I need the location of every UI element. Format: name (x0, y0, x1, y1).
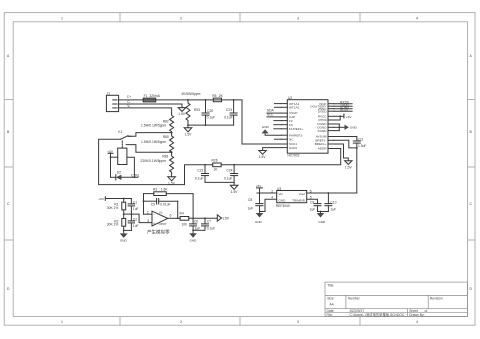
capacitor C10 (325, 193, 337, 212)
svg-text:1uF: 1uF (310, 207, 316, 211)
op-amp U1 OP07 (147, 211, 172, 226)
svg-text:+5V: +5V (346, 115, 353, 119)
junction coil right (134, 176, 136, 178)
wire C22 C24 bottoms (205, 181, 234, 183)
resistor R5 (212, 94, 223, 102)
svg-text:6: 6 (170, 214, 172, 218)
wire U2 AVSUM to C11 (334, 136, 357, 138)
svg-text:6: 6 (310, 189, 312, 193)
svg-text:0.1uF: 0.1uF (224, 116, 232, 120)
wire RTD0 tie to +5V (334, 116, 340, 120)
svg-text:J1: J1 (107, 92, 111, 96)
resistor R83 (141, 152, 174, 177)
svg-text:4: 4 (416, 16, 418, 20)
connector J1 (106, 92, 118, 112)
junction C23 top (233, 99, 235, 101)
resistor R80 (141, 133, 174, 153)
svg-text:1uF: 1uF (133, 207, 139, 211)
wire coil right down (127, 157, 134, 177)
junction tap2 (171, 151, 173, 153)
wire U2 DGND group to GND (334, 124, 339, 131)
svg-text:C+: C+ (127, 95, 131, 99)
power port +5V at relay (107, 149, 114, 157)
wire U2 DOUT (334, 105, 352, 107)
svg-text:+5V: +5V (107, 149, 114, 153)
wire U2 BREF1- to C11 bottom (334, 140, 357, 148)
junction C7 top (204, 217, 206, 219)
svg-text:C23: C23 (226, 108, 232, 112)
svg-text:3: 3 (297, 320, 299, 324)
junction C5 left (143, 200, 145, 202)
capacitor C5 (144, 199, 178, 207)
svg-text:4: 4 (416, 320, 418, 324)
svg-text:4: 4 (271, 196, 273, 200)
junction C22 top (204, 164, 206, 166)
svg-text:GND: GND (262, 125, 270, 129)
junction R1 top (123, 198, 125, 200)
junction C20 top (205, 99, 207, 101)
svg-text:Title: Title (327, 284, 333, 288)
svg-text:100: 100 (181, 222, 187, 226)
svg-text:1.5K: 1.5K (161, 188, 169, 192)
svg-text:ADDR: ADDR (318, 147, 328, 151)
power port GND right of U2 (right arrow) (339, 125, 357, 130)
wire +5V down to diode anode (110, 157, 112, 177)
svg-text:C9: C9 (310, 200, 314, 204)
svg-text:1.5V: 1.5V (178, 112, 186, 116)
svg-text:OP07: OP07 (159, 222, 167, 226)
junction Vout C10 (328, 192, 330, 194)
svg-text:1.5V: 1.5V (222, 216, 230, 220)
svg-text:1uF: 1uF (330, 207, 336, 211)
svg-text:0.1uF: 0.1uF (207, 116, 215, 120)
svg-text:Size: Size (327, 297, 334, 301)
svg-text:C6: C6 (194, 220, 198, 224)
svg-text:CTRL: CTRL (131, 174, 140, 178)
wire +5V to coil left (111, 156, 118, 158)
wire U2 SCK0 to 1.5V port (263, 148, 282, 151)
junction Vin C8 (259, 192, 261, 194)
svg-text:30K 1%: 30K 1% (107, 223, 119, 227)
svg-text:F1/REF2+: F1/REF2+ (289, 127, 303, 131)
svg-text:1uF: 1uF (133, 224, 139, 228)
svg-text:REF3040: REF3040 (276, 204, 290, 208)
svg-text:1.5uF: 1.5uF (358, 144, 366, 148)
junction C9 C10 (320, 211, 322, 213)
svg-text:C:\Users\..\测试电压采集板.SCHDOC: C:\Users\..\测试电压采集板.SCHDOC (350, 312, 405, 317)
resistor R3 (144, 188, 194, 196)
capacitor C22 (195, 165, 209, 183)
wire U2 ZSNC (334, 108, 352, 110)
wire U2 WT1A1 (274, 103, 281, 105)
power port 1.5V below C24 (230, 182, 238, 194)
svg-text:C24: C24 (226, 168, 232, 172)
svg-text:220K/0.1W/5ppm: 220K/0.1W/5ppm (141, 159, 167, 163)
svg-text:GND: GND (318, 220, 326, 224)
power port 1.5V below R93 (184, 125, 192, 136)
svg-text:3: 3 (297, 16, 299, 20)
wire U2 VSUP (267, 112, 281, 114)
svg-text:320mA: 320mA (149, 94, 160, 98)
resistor R2 (107, 214, 126, 230)
power port 1.5V below chain (168, 177, 176, 186)
capacitor C2 (128, 214, 138, 230)
svg-text:1.5V: 1.5V (345, 165, 353, 169)
wire J1 pin1 to fuse (119, 99, 144, 101)
svg-text:of: of (425, 309, 428, 313)
svg-text:K1: K1 (118, 130, 122, 134)
wire feedback right vertical (192, 194, 194, 219)
svg-text:2: 2 (180, 320, 182, 324)
junction C5 feedback at output (177, 217, 179, 219)
svg-text:1.5V: 1.5V (231, 190, 239, 194)
wire opamp output to R4 (168, 217, 180, 219)
wire R26 to U2 sense loop (221, 149, 341, 165)
svg-text:R93: R93 (194, 108, 200, 112)
svg-text:R80: R80 (163, 135, 169, 139)
junction C6 bottom (192, 229, 194, 231)
svg-text:GND: GND (350, 126, 358, 130)
wire U2 WT1A2 (274, 106, 281, 108)
power port 1.5V (open triangle) at J1 (178, 108, 186, 117)
svg-text:Vout: Vout (299, 192, 305, 196)
svg-text:HX7902: HX7902 (288, 154, 300, 158)
wire J1 pin2 to 1.5V port (119, 104, 182, 108)
svg-text:C7: C7 (207, 220, 211, 224)
svg-text:1.5V: 1.5V (185, 132, 193, 136)
wire divider bottom node (124, 229, 132, 231)
port 1.5V output (217, 215, 230, 221)
wire C9 C10 bottoms (318, 211, 329, 213)
svg-text:D2: D2 (117, 171, 121, 175)
capacitor C9 (310, 200, 322, 211)
svg-text:Drawn By:: Drawn By: (409, 313, 424, 317)
power port GND below C6 (189, 230, 197, 242)
power port +5V right of U2 (bar) (344, 114, 352, 119)
svg-text:GND: GND (190, 238, 198, 242)
svg-text:U1: U1 (159, 211, 163, 215)
svg-text:C8: C8 (248, 198, 252, 202)
junction R93 bottom (187, 124, 189, 126)
capacitor C24 (224, 165, 238, 183)
IC U2 HX7902 (281, 96, 334, 158)
svg-text:R26: R26 (212, 159, 218, 163)
power port GND left of U2 (up arrow) (262, 125, 282, 135)
wire +5V to divider top (105, 198, 131, 200)
power port 1.5V below U2 left (259, 151, 267, 160)
wire U2 F2 (274, 120, 282, 122)
svg-text:4K/5W/5ppm: 4K/5W/5ppm (181, 92, 200, 96)
svg-text:5: 5 (310, 196, 312, 200)
svg-text:WT1A2: WT1A2 (289, 106, 300, 110)
svg-text:R4: R4 (180, 211, 184, 215)
capacitor C8 (248, 193, 264, 212)
junction tap1 (171, 132, 173, 134)
svg-text:U2: U2 (288, 96, 292, 100)
wire diode to coil right (121, 176, 138, 178)
svg-text:C22: C22 (197, 168, 203, 172)
svg-text:30K 1%: 30K 1% (107, 206, 119, 210)
power port 1.5V right of U2 (345, 161, 353, 170)
svg-text:0.01uF: 0.01uF (160, 202, 170, 206)
svg-text:GND: GND (120, 239, 128, 243)
wire tap2 to relay throw2 (126, 145, 171, 153)
svg-text:NC: NC (289, 137, 294, 141)
svg-text:C5: C5 (151, 202, 155, 206)
junction bottom (123, 230, 125, 232)
junction C11 bottom (356, 147, 358, 149)
wire U2 BREF1+ to 1.5V port (334, 144, 348, 161)
junction R3 feedback at output (192, 217, 194, 219)
svg-text:AGND: AGND (318, 129, 328, 133)
junction coil left (110, 156, 112, 158)
svg-text:3: 3 (147, 219, 149, 223)
power port GND below C8 (255, 212, 263, 224)
wire U2 F0 (274, 124, 282, 126)
power port +5V at REF3040 (256, 184, 263, 193)
svg-text:C20: C20 (207, 109, 213, 113)
wire U2 CAP (267, 116, 281, 118)
svg-text:U3: U3 (277, 187, 281, 191)
wire J1 pin3 to divider chain top (119, 108, 172, 113)
svg-text:1.5V: 1.5V (259, 155, 267, 159)
junction DGND (338, 126, 340, 128)
wire fuse to node and RC filter (156, 99, 242, 101)
capacitor C1 (128, 199, 138, 215)
junction RVCC (339, 115, 341, 117)
svg-text:F1: F1 (144, 94, 148, 98)
resistor R1 (107, 199, 126, 215)
svg-text:+5V: +5V (98, 197, 105, 201)
wire U2 ISCK (334, 103, 352, 105)
relay K1 (118, 130, 131, 164)
wire Vout to right (307, 192, 357, 194)
svg-text:1.5M/0.1W/5ppm: 1.5M/0.1W/5ppm (141, 140, 166, 144)
resistor R93 (186, 100, 200, 125)
resistor R82 (141, 113, 174, 132)
wire to diode (111, 176, 116, 178)
wire relay pole to R26 filter (99, 139, 213, 184)
svg-text:DVDD: DVDD (318, 109, 328, 113)
fuse F1 (143, 94, 160, 102)
diode D2 (116, 171, 122, 180)
wire R4 to port (189, 217, 218, 219)
svg-text:C1: C1 (133, 200, 137, 204)
svg-text:C10: C10 (330, 200, 336, 204)
svg-text:R3: R3 (153, 188, 157, 192)
wire U2 NC stub (274, 138, 281, 140)
capacitor C11 (353, 137, 366, 148)
svg-text:C11: C11 (358, 137, 364, 141)
wire U2 F1 (274, 128, 282, 130)
svg-text:1: 1 (61, 320, 63, 324)
svg-text:1: 1 (61, 16, 63, 20)
wire opamp minus input (144, 213, 153, 215)
wire mid node to opamp plus (131, 214, 152, 223)
capacitor C20 (202, 100, 215, 125)
wire U2 RVCC to +5V (334, 115, 344, 117)
svg-text:0.1uF: 0.1uF (195, 177, 203, 181)
svg-text:Revision: Revision (430, 297, 443, 301)
wire REF GND pin (260, 199, 277, 211)
title block (325, 282, 468, 317)
resistor R4 (180, 211, 189, 226)
svg-text:2: 2 (271, 189, 273, 193)
wire RC1 output down to U2 (242, 100, 281, 144)
wire divider mid node (124, 213, 132, 215)
svg-text:0.1uF: 0.1uF (207, 227, 215, 231)
junction mid R1 (123, 213, 125, 215)
svg-text:1uF: 1uF (248, 207, 254, 211)
wire C6 C7 bottoms (193, 229, 205, 231)
wire C5 right vertical (177, 201, 179, 218)
wire feedback left vertical (143, 194, 145, 215)
svg-text:A4: A4 (330, 303, 334, 307)
junction C20 bottom (205, 124, 207, 126)
svg-text:SCL: SCL (267, 113, 274, 117)
capacitor C6 (190, 218, 201, 230)
svg-text:+: + (153, 221, 155, 225)
wire TRIM pin to C9 (307, 199, 318, 203)
svg-text:0.1uF: 0.1uF (224, 177, 232, 181)
svg-text:产生模拟零: 产生模拟零 (147, 228, 170, 235)
junction C24 top (233, 164, 235, 166)
power port GND below C9 C10 (317, 212, 326, 224)
capacitor C7 (202, 218, 216, 230)
svg-text:1.5M/0.1W/5ppm: 1.5M/0.1W/5ppm (141, 124, 166, 128)
svg-text:2: 2 (180, 16, 182, 20)
svg-text:File:: File: (327, 313, 333, 317)
svg-text:R5: R5 (212, 94, 216, 98)
resistor R26 (212, 159, 222, 172)
power port +5V at divider (98, 197, 105, 201)
wire tap1 to relay throw1 (128, 133, 171, 137)
junction node R93 top (187, 99, 189, 101)
svg-text:TRIM/NR: TRIM/NR (292, 198, 306, 202)
power port GND below divider (120, 230, 128, 242)
voltage reference U3 REF3040 (276, 187, 307, 208)
svg-text:GND: GND (279, 198, 287, 202)
capacitor C23 (224, 100, 237, 125)
svg-text:BREF1+: BREF1+ (315, 142, 327, 146)
svg-text:Vin: Vin (279, 192, 284, 196)
svg-text:GND: GND (255, 220, 263, 224)
wire bottom of R93 C20 C23 (188, 124, 234, 126)
svg-text:C2: C2 (133, 217, 137, 221)
wire +5V to Vin (257, 192, 277, 194)
wire U2 DVDD (334, 110, 352, 112)
svg-text:Number: Number (348, 297, 361, 301)
wire C11 bottom down to REF output (356, 148, 358, 193)
svg-text:SCK0: SCK0 (289, 146, 297, 150)
